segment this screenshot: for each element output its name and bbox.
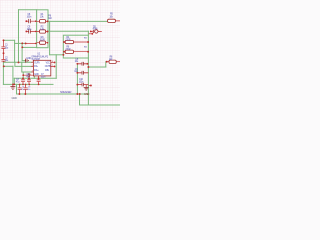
junction R3 right pin [47,42,49,44]
wire vertical x77.4 [76,64,78,94]
junction C6 left [76,72,78,74]
junction rail x12.9 [12,84,14,86]
junction chain top [3,39,5,41]
junction row2 box [47,31,49,33]
wire row2 y31.3 [48,30,88,32]
junction R6 right [87,51,89,53]
wire y40.3 [4,39,15,41]
junction U2 right pin2 [54,65,56,67]
svg-text:INA-: INA- [34,65,38,68]
resistor R2 leads [37,31,48,33]
junction rail x14.3 [13,84,15,86]
junction stub pin2 [90,85,92,87]
wire top horizontal [19,9,37,11]
ground GND2 [25,59,29,63]
wire to U2 pin2 [15,62,32,66]
junction row3 dots [21,42,23,44]
wire U2 pin stub [33,76,35,78]
wire bottom y105 [80,104,121,106]
op-amp U2 [33,60,50,76]
U2 pin leads right [51,62,54,66]
junction wire94 x79.7 [79,93,81,95]
resistor R3 [40,41,46,44]
wire branch y47.4 [22,46,36,48]
junction chain low [3,65,5,67]
svg-text:OUTA: OUTA [34,61,40,64]
wire row1 y21.4 [48,20,107,22]
junction pin1 wire [18,61,20,63]
junction C8 pin [25,20,27,22]
wire x88.4 lower [87,58,89,105]
svg-text:GND: GND [34,74,39,76]
junction row3 pin2 [35,43,37,45]
resistor R1 [40,20,46,23]
junction C3 top [22,77,24,79]
junction C10 left [76,84,78,86]
svg-text:270R: 270R [65,48,70,51]
ground GND3 stem [85,85,87,88]
junction wire67 [87,66,89,68]
svg-text:4: 4 [30,74,31,76]
capacitor C11 leads [23,74,31,76]
wire vertical x49.6 [49,21,51,54]
junction C12 bottom [18,93,20,95]
capacitor C9 plates [29,29,31,33]
ground GND3 [84,88,89,91]
junction C9 pin2 [35,31,37,33]
junction C5 left [76,63,78,65]
lead row3 left [26,42,37,44]
pin stub right of C10 [89,85,90,87]
wire ground rail y84.4 [3,83,53,85]
svg-text:7: 7 [52,65,53,67]
capacitor C5 plates [82,62,83,66]
capacitor C11 plates [28,73,29,77]
wire x16.5 [16,84,18,94]
wire vertical x23.2 [22,72,24,78]
junction C8 pin2 [35,20,37,22]
diode D1 [93,30,98,33]
junction U2 right pin1 [54,61,56,63]
junction R7 left [106,61,108,63]
junction wire94 x77.4 [76,93,78,95]
capacitor C7 body [37,78,41,84]
U2 pin lead bottom [38,76,40,78]
junction row3 pin [25,42,27,44]
wire vertical to GND2 [22,43,25,60]
svg-text:47u: 47u [21,89,24,91]
svg-text:2: 2 [32,65,33,67]
junction R4 right [87,41,89,43]
svg-text:TL072CP: TL072CP [31,58,40,61]
capacitor C4 body [27,78,31,84]
svg-text:OUTB: OUTB [45,66,51,68]
junction stub pin [91,33,93,35]
junction rail x38.6 [38,84,40,86]
wire x105.8 up to R7 [105,62,107,67]
capacitor C8 leads [27,20,37,22]
junction C11 left [22,74,24,76]
IC box U1 [37,10,48,48]
svg-text:INB-: INB- [45,70,49,72]
junction C13 bottom [24,93,26,95]
junction U2 bottom [38,77,40,79]
wire mid vertical x14.6 [14,40,16,62]
capacitor C5 body [78,63,89,65]
label U2 pins [34,61,51,76]
diode D1 leads [91,30,102,32]
junction C5 right [86,63,88,65]
resistor R7 [109,60,116,63]
svg-text:1: 1 [32,61,33,63]
wire x79.5 [79,94,81,105]
junction C9 pin [25,30,27,32]
wire y43.4 [15,42,26,44]
capacitor C6 body [78,72,89,74]
resistor R3 leads [37,42,48,44]
svg-text:VCC: VCC [46,62,51,64]
resistor R2 [40,30,46,33]
junction rail x29.3 [28,84,30,86]
capacitor C8 plates [29,19,31,23]
junction rail x25.6 [25,84,27,86]
wire left vertical bus [18,10,20,63]
wire y67 to R7 [88,66,105,68]
capacitor C3 body [21,78,25,84]
resistor R1 leads [37,20,48,22]
svg-text:270R: 270R [65,38,70,41]
wire y54.8 [50,54,64,56]
junction C4 top [28,77,30,79]
junction y47.4 [21,46,23,48]
wire x12.9 down [12,66,14,84]
junction R4 left [63,41,65,43]
wire x14.3 down [13,78,15,84]
junction rail x19.6 [19,84,21,86]
capacitor C13 body [24,85,28,94]
capacitor C6 plates [82,71,83,75]
IC box U3 [63,35,88,58]
capacitor C10 body [78,84,89,86]
resistor R6 [65,50,73,53]
resistor R6 leads [63,51,88,53]
wire U2 right rail [55,55,57,79]
wire x88.4 upper [87,31,89,35]
resistor R4 [65,40,73,43]
svg-text:GND: GND [12,96,17,100]
resistor R7 leads [107,61,120,63]
U2 pin numbers [30,61,53,76]
wire y66.3 left [3,65,13,67]
junction chain mid [3,52,5,54]
capacitor C10 plates [82,83,83,87]
wire to U2 pin1 [3,61,31,63]
svg-text:SPEAKER: SPEAKER [60,90,72,94]
junction R6 left [63,51,65,53]
wire to U2 pin3 [22,62,32,72]
junction wire54.8 end [62,54,64,56]
capacitor C12 body [18,85,22,94]
svg-text:510R: 510R [40,39,45,42]
resistor R5 [108,19,116,22]
wire y78.3 [14,77,56,79]
pin stub top of U3 [89,33,92,35]
svg-text:47u: 47u [27,89,30,91]
capacitor C2 body [1,53,5,62]
U2 pin leads left [30,62,34,75]
resistor R4 leads [63,41,88,43]
capacitor C1 body [1,41,5,53]
svg-text:8: 8 [52,61,53,63]
wire y94 [17,93,89,95]
junction rail x23 [22,84,24,86]
svg-text:GND: GND [84,92,89,96]
svg-text:3: 3 [32,71,33,73]
wire left chain vertical [2,62,4,84]
ground GND1 [10,84,15,89]
junction D1 left [90,30,92,32]
junction row1 box [47,20,49,22]
resistor R5 leads [115,20,120,22]
capacitor C9 leads [27,30,37,32]
